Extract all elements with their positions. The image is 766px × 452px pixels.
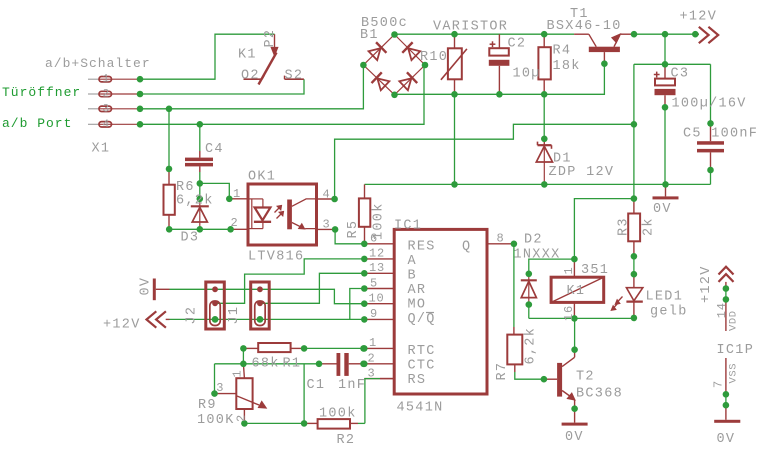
svg-text:Q/Q: Q/Q (408, 312, 436, 327)
svg-text:R7: R7 (495, 362, 510, 381)
svg-text:C2: C2 (508, 37, 527, 52)
svg-text:18k: 18k (553, 59, 581, 74)
svg-text:+12V: +12V (699, 265, 714, 303)
svg-text:1: 1 (103, 74, 110, 86)
svg-text:D2: D2 (524, 233, 543, 248)
svg-text:IC1P: IC1P (717, 343, 755, 358)
svg-text:A: A (408, 254, 417, 269)
svg-text:LED1: LED1 (646, 290, 684, 305)
svg-text:R2: R2 (337, 433, 356, 448)
svg-text:J2: J2 (184, 306, 199, 325)
svg-text:3: 3 (368, 366, 376, 380)
svg-text:1: 1 (562, 266, 576, 274)
svg-text:1NXXX: 1NXXX (514, 248, 561, 263)
svg-text:gelb: gelb (650, 305, 688, 320)
svg-text:VDD: VDD (728, 310, 740, 331)
svg-text:2: 2 (368, 352, 376, 366)
svg-text:J1: J1 (227, 306, 242, 325)
svg-text:LTV816: LTV816 (248, 250, 304, 265)
svg-text:K1: K1 (567, 284, 586, 299)
svg-text:R1: R1 (283, 357, 302, 372)
svg-text:VSS: VSS (728, 363, 740, 384)
svg-text:O2: O2 (241, 69, 260, 84)
svg-text:2k: 2k (642, 217, 657, 236)
svg-text:3: 3 (103, 103, 110, 115)
svg-text:6,2k: 6,2k (176, 194, 214, 209)
svg-text:68k: 68k (252, 357, 280, 372)
svg-text:3: 3 (216, 381, 224, 395)
svg-text:IC1: IC1 (394, 219, 422, 234)
svg-text:a/b Port: a/b Port (2, 116, 72, 131)
svg-text:MO: MO (408, 297, 427, 312)
svg-text:B: B (408, 268, 417, 283)
svg-text:2: 2 (103, 89, 110, 101)
svg-text:BSX46-10: BSX46-10 (547, 19, 622, 34)
svg-text:0V: 0V (565, 430, 584, 445)
svg-text:R4: R4 (553, 44, 572, 59)
svg-text:D3: D3 (181, 231, 200, 246)
svg-text:6,2k: 6,2k (524, 327, 539, 365)
svg-text:6: 6 (370, 232, 378, 246)
svg-text:1: 1 (233, 187, 241, 201)
svg-text:R5: R5 (346, 220, 361, 239)
svg-text:1: 1 (369, 336, 377, 350)
svg-text:2: 2 (234, 414, 248, 422)
svg-text:ZDP 12V: ZDP 12V (549, 165, 615, 180)
svg-text:RTC: RTC (408, 344, 436, 359)
svg-text:OK1: OK1 (248, 170, 276, 185)
svg-text:100µ/16V: 100µ/16V (672, 97, 747, 112)
svg-text:C3: C3 (671, 67, 690, 82)
svg-text:100K: 100K (197, 413, 235, 428)
svg-text:5: 5 (370, 276, 378, 290)
svg-text:R9: R9 (198, 398, 217, 413)
svg-text:10µ: 10µ (513, 67, 541, 82)
svg-text:BC368: BC368 (576, 387, 623, 402)
svg-text:S2: S2 (285, 69, 304, 84)
svg-text:R10: R10 (420, 50, 448, 65)
svg-text:C5 100nF: C5 100nF (683, 127, 758, 142)
svg-text:R3: R3 (617, 217, 632, 236)
svg-text:9: 9 (370, 307, 378, 321)
svg-text:B1: B1 (360, 28, 379, 43)
svg-text:0V: 0V (717, 432, 736, 447)
svg-text:RES: RES (408, 239, 436, 254)
svg-text:100k: 100k (319, 407, 357, 422)
svg-text:VARISTOR: VARISTOR (433, 20, 508, 35)
svg-text:CTC: CTC (408, 358, 436, 373)
svg-text:13: 13 (369, 261, 385, 275)
svg-text:8: 8 (497, 232, 505, 246)
svg-text:AR: AR (408, 283, 427, 298)
svg-text:+12V: +12V (680, 10, 718, 25)
svg-text:1: 1 (230, 369, 244, 377)
svg-text:16: 16 (562, 305, 576, 321)
svg-text:X1: X1 (92, 142, 111, 157)
svg-text:RS: RS (408, 373, 427, 388)
svg-text:4: 4 (323, 188, 331, 202)
svg-text:4541N: 4541N (397, 401, 444, 416)
svg-text:3: 3 (323, 218, 331, 232)
svg-text:Türöffner: Türöffner (2, 85, 81, 100)
svg-text:Q: Q (462, 239, 471, 254)
svg-text:12: 12 (369, 247, 385, 261)
svg-text:351: 351 (581, 263, 609, 278)
svg-text:1nF: 1nF (338, 378, 366, 393)
svg-text:P2: P2 (263, 29, 278, 48)
svg-text:C4: C4 (205, 142, 224, 157)
svg-text:2: 2 (231, 216, 239, 230)
svg-text:0V: 0V (139, 277, 154, 296)
svg-text:+12V: +12V (103, 318, 141, 333)
svg-text:C1: C1 (307, 378, 326, 393)
svg-text:10: 10 (369, 292, 385, 306)
svg-text:0V: 0V (653, 202, 672, 217)
svg-text:a/b+Schalter: a/b+Schalter (45, 56, 151, 71)
svg-text:K1: K1 (238, 48, 257, 63)
svg-text:7: 7 (712, 380, 726, 388)
svg-text:T2: T2 (576, 370, 595, 385)
svg-text:4: 4 (103, 119, 110, 131)
